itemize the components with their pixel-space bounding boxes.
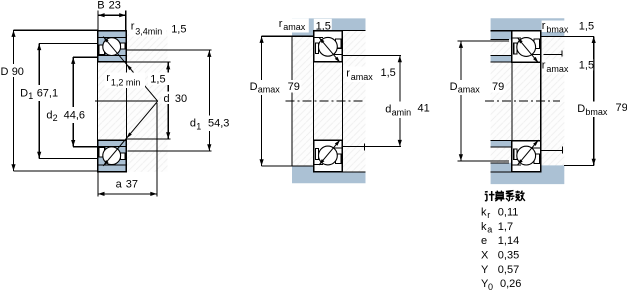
bore line right (fig2)	[341, 62, 343, 141]
bearing section top (fig2): cage right	[336, 39, 341, 48]
svg-text:bmax: bmax	[585, 107, 608, 117]
bearing section bottom (fig3): outer ring raceway line	[513, 164, 522, 166]
label da min (fig2)	[384, 102, 413, 119]
arrow B left	[98, 13, 105, 17]
dimension line Db max 79	[593, 36, 595, 165]
bore line left (fig2)	[313, 62, 315, 141]
label ra max (fig3)	[542, 60, 571, 74]
housing bore line top (fig2)	[314, 30, 366, 32]
bore line left (fig3)	[511, 62, 513, 140]
svg-text:a: a	[116, 179, 123, 191]
housing shoulder face top (fig2)	[262, 35, 314, 37]
housing lower section (fig2)	[292, 166, 366, 183]
table heading 计算系数 (drawn strokes)	[485, 191, 495, 201]
label 79 Db (fig3)	[614, 102, 627, 114]
bearing section bottom (fig2): inner ring raceway line	[333, 147, 342, 149]
svg-text:0,35: 0,35	[498, 249, 519, 261]
dimension line a 37	[98, 193, 157, 195]
arrow D1 bottom	[37, 152, 41, 159]
svg-text:0,11: 0,11	[498, 206, 519, 218]
svg-text:D: D	[250, 81, 258, 93]
arrow d2 bottom	[71, 140, 75, 147]
arrow B right	[119, 13, 126, 17]
contact/load line bottom	[103, 101, 158, 166]
svg-text:79: 79	[492, 81, 504, 93]
a left extension line	[97, 172, 99, 197]
svg-text:X: X	[481, 249, 489, 261]
arrow d1 bottom	[207, 144, 211, 151]
bearing cross-section top (fig1): outer ring raceway line	[98, 36, 125, 38]
svg-text:a: a	[487, 224, 492, 234]
label d2 44,6	[45, 107, 87, 123]
svg-text:23: 23	[109, 0, 121, 11]
figure 2 hatched zone	[292, 31, 366, 172]
dimension line da min 41	[399, 56, 401, 147]
svg-text:bmax: bmax	[546, 25, 569, 35]
housing bore line top (fig3)	[491, 30, 541, 32]
contact arrow top2 (fig2)	[335, 57, 340, 63]
dimension line Da max 79	[261, 36, 263, 166]
arrow Db top (fig3)	[592, 37, 596, 44]
svg-text:44,6: 44,6	[64, 109, 85, 121]
bore line right	[125, 62, 127, 141]
D bottom extension line	[14, 170, 98, 172]
svg-text:30: 30	[175, 93, 187, 105]
bearing cross-section bottom (fig1): cage right	[121, 153, 125, 159]
contact arrow bottom (fig2)	[319, 159, 324, 165]
bore line left	[97, 62, 99, 141]
label r12min	[105, 73, 146, 89]
contact line bottom (fig2)	[319, 140, 340, 165]
svg-text:r: r	[542, 60, 546, 72]
dimension line B 23	[98, 14, 126, 16]
label ra max top (fig2)	[277, 19, 309, 33]
bearing section top (fig2): ring block	[314, 31, 343, 62]
label 1,5 top (fig2)	[314, 19, 332, 30]
B right extension line	[125, 11, 127, 31]
svg-text:amax: amax	[283, 22, 306, 32]
label 79 Da (fig3)	[490, 81, 506, 93]
svg-text:0,26: 0,26	[500, 278, 521, 290]
svg-text:amax: amax	[258, 85, 281, 95]
shaft shoulder line bottom (fig2)	[342, 146, 400, 148]
svg-text:r: r	[106, 72, 110, 84]
dimension line d2 44,6	[72, 57, 74, 147]
svg-text:67,1: 67,1	[37, 87, 58, 99]
bearing cross-section top (fig1): cage right	[121, 43, 125, 49]
Da extension bottom (fig3)	[458, 160, 509, 162]
arrow D1 top	[37, 44, 41, 51]
dimension line d1 54,3	[208, 50, 210, 151]
bearing cross-section top (fig1): ball	[103, 38, 121, 56]
contact line top (fig3)	[517, 38, 538, 63]
washer lower edge / Db extension top (fig3)	[541, 35, 594, 37]
arrow d1 top	[207, 50, 211, 57]
svg-text:0,57: 0,57	[498, 264, 519, 276]
bearing section top (fig3): ball	[517, 38, 536, 57]
svg-text:r: r	[279, 18, 283, 30]
arrow da top (fig2)	[398, 56, 402, 63]
bearing section bottom (fig3): cage left	[514, 149, 517, 160]
arrow Da top (fig3)	[459, 41, 463, 48]
d2 bottom extension line	[73, 146, 97, 148]
bearing cross-section bottom (fig1): outer ring raceway line	[98, 164, 125, 166]
svg-text:e: e	[481, 235, 487, 247]
contact line arrow bottom	[103, 160, 108, 166]
arrow D top	[11, 30, 15, 37]
svg-text:1,14: 1,14	[498, 235, 519, 247]
bore line right (fig3)	[540, 62, 542, 140]
svg-text:D: D	[577, 103, 585, 115]
shaft step tick (fig2)	[363, 144, 365, 151]
svg-text:Y: Y	[481, 264, 489, 276]
contact line arrow top	[103, 37, 108, 43]
arrow d2 top	[71, 57, 75, 64]
dimension line Da max (fig3)	[460, 41, 462, 161]
svg-text:1,5: 1,5	[381, 67, 396, 79]
bearing cross-section bottom (fig1): cage left	[99, 148, 105, 158]
contact line top (fig2)	[319, 37, 340, 62]
svg-text:41: 41	[418, 103, 430, 115]
svg-text:D: D	[1, 66, 9, 78]
d1 bottom extension line	[128, 150, 212, 152]
housing shoulder face top (fig3)	[491, 39, 509, 41]
d bottom extension line	[126, 138, 170, 140]
arrow Db bottom (fig3)	[592, 159, 596, 166]
svg-text:D: D	[450, 81, 458, 93]
label r34min	[129, 22, 166, 37]
arrow D bottom	[11, 164, 15, 171]
bearing section bottom (fig3): cage right	[534, 154, 539, 163]
svg-text:d: d	[46, 109, 52, 121]
svg-text:r: r	[346, 68, 350, 80]
shaft spacer line2 (fig3)	[491, 146, 512, 148]
bearing cross-section bottom (fig1): ring block	[98, 140, 127, 171]
bearing section bottom (fig2): outer ring raceway line	[314, 164, 323, 166]
svg-text:1,5: 1,5	[316, 20, 331, 32]
shaft spacer bottom line (fig3)	[491, 61, 512, 63]
housing bore line bottom (fig2)	[314, 171, 366, 173]
svg-text:r: r	[131, 21, 135, 33]
d1 top extension line	[126, 49, 211, 51]
B left extension line	[97, 11, 99, 31]
contact arrow bottom (fig3)	[518, 159, 523, 165]
bearing section bottom (fig3): ring block	[512, 141, 541, 172]
shaft spacer line (fig3)	[491, 140, 512, 142]
arrow a left	[98, 192, 105, 196]
svg-text:amax: amax	[458, 85, 481, 95]
r12 leader arrow bottom	[127, 132, 132, 138]
arrow Da top (fig2)	[260, 36, 264, 43]
Da extension top (fig3)	[458, 40, 509, 42]
bearing section top (fig3): cage right	[534, 39, 539, 48]
r12 leader arrow top	[127, 64, 132, 70]
shaft spacer top line (fig3)	[491, 55, 512, 57]
figure 3 hatched zone	[491, 31, 565, 172]
bearing section top (fig3): cage left	[514, 43, 517, 54]
bearing section top (fig3): inner ring raceway line	[531, 54, 540, 56]
d2 top extension line	[73, 56, 97, 58]
bearing cross-section top (fig1): ring block	[98, 31, 127, 62]
svg-text:D: D	[20, 87, 28, 99]
dimension line D1 67,1	[38, 43, 40, 158]
bearing cross-section top (fig1): inner ring raceway line	[98, 55, 125, 57]
bearing section bottom (fig2): ball	[319, 146, 338, 165]
arrow Da bottom (fig3)	[459, 154, 463, 161]
label Da max (fig3)	[448, 80, 482, 95]
dimension line D 90	[13, 30, 15, 171]
svg-text:1,5: 1,5	[579, 20, 594, 32]
svg-text:d: d	[190, 118, 196, 130]
bearing section bottom (fig3): inner ring raceway line	[531, 147, 540, 149]
svg-text:79: 79	[288, 81, 300, 93]
bearing section bottom (fig2): cage right	[336, 154, 341, 163]
label 79 (fig2)	[286, 80, 302, 93]
svg-text:amax: amax	[351, 72, 374, 82]
label 1,5 mid (fig2)	[379, 67, 397, 79]
svg-text:1,2 min: 1,2 min	[111, 77, 141, 87]
label Da max (fig2)	[248, 80, 282, 95]
centerline fig3	[485, 100, 560, 102]
svg-text:k: k	[481, 206, 487, 218]
bearing section top (fig3): ring block	[512, 31, 541, 62]
ra reference line bottom (fig3)	[541, 149, 562, 151]
contact arrow top2 (fig3)	[533, 57, 538, 63]
contact arrow bottom2 (fig3)	[533, 140, 538, 146]
a right extension line	[156, 103, 158, 197]
label 1,5 r12	[148, 73, 170, 86]
svg-text:1,7: 1,7	[498, 221, 513, 233]
contact arrow top (fig2)	[319, 38, 324, 44]
arrow Da bottom (fig2)	[260, 159, 264, 166]
housing upper section (fig2)	[292, 18, 366, 36]
svg-text:79: 79	[616, 102, 627, 114]
label rb max (fig3)	[542, 21, 571, 33]
housing bore line bottom (fig3)	[491, 171, 541, 173]
contact line bottom (fig3)	[517, 140, 538, 165]
figure 1 hatched shaft/housing zone	[98, 31, 168, 172]
ra reference tick bottom (fig3)	[561, 147, 563, 154]
centerline fig2	[285, 100, 363, 102]
bearing section bottom (fig3): ball	[517, 146, 536, 165]
contact arrow top (fig3)	[518, 38, 523, 44]
svg-text:3,4min: 3,4min	[135, 27, 162, 37]
bearing cross-section top (fig1): cage left	[99, 45, 105, 55]
d top extension line	[126, 61, 170, 63]
arrow a right	[150, 192, 157, 196]
bearing section top (fig3): outer ring raceway line	[513, 37, 522, 39]
label ra max mid (fig2)	[345, 67, 377, 83]
shaft spacer top (fig3)	[491, 56, 512, 63]
ra reference tick (fig3)	[561, 50, 563, 56]
label 41 (fig2)	[416, 102, 431, 113]
contact arrow bottom2 (fig2)	[335, 140, 340, 146]
svg-text:d: d	[385, 104, 391, 116]
housing upper section (fig3)	[491, 18, 565, 39]
Db extension bottom (fig3)	[564, 164, 594, 166]
label Db max (fig3)	[576, 102, 613, 118]
bearing section top (fig2): outer ring raceway line	[314, 37, 323, 39]
shaft shoulder line top (fig2)	[342, 55, 400, 57]
label 1,5 rb (fig3)	[577, 20, 593, 32]
centerline fig1	[95, 100, 158, 102]
housing lower section (fig3)	[491, 163, 565, 184]
label d1 54,3	[188, 116, 232, 132]
D1 bottom extension line	[39, 157, 97, 159]
housing shoulder wall line (fig2)	[291, 36, 293, 166]
svg-text:37: 37	[126, 179, 138, 191]
svg-text:0: 0	[488, 282, 493, 291]
bearing section bottom (fig2): cage left	[316, 149, 319, 160]
label D1 67,1	[18, 85, 60, 101]
housing shoulder face bottom (fig2)	[262, 165, 314, 167]
svg-text:2: 2	[53, 113, 58, 123]
svg-text:d: d	[164, 93, 170, 105]
bearing cross-section bottom (fig1): ball	[103, 147, 121, 165]
bearing section top (fig2): inner ring raceway line	[333, 53, 342, 55]
label 1,5 ra (fig3)	[577, 59, 593, 71]
svg-text:B: B	[97, 0, 104, 11]
bearing cross-section bottom (fig1): inner ring raceway line	[98, 146, 125, 148]
arrow da bottom (fig2)	[398, 140, 402, 147]
svg-text:1,5: 1,5	[150, 74, 165, 86]
D1 top extension line	[39, 42, 97, 44]
dimension line d 30	[167, 63, 169, 139]
bearing section top (fig2): cage left	[316, 43, 319, 54]
svg-text:k: k	[481, 221, 487, 233]
svg-text:amax: amax	[546, 64, 569, 74]
label 1,5 r34	[169, 23, 189, 35]
ra reference line (fig3)	[544, 54, 563, 56]
svg-text:r: r	[487, 210, 490, 220]
svg-text:54,3: 54,3	[208, 118, 229, 130]
bearing section bottom (fig2): ring block	[314, 140, 343, 171]
svg-text:1: 1	[196, 121, 201, 131]
D top extension line	[14, 29, 98, 31]
label D 90	[0, 64, 25, 77]
svg-text:1: 1	[28, 91, 33, 101]
svg-text:r: r	[542, 20, 546, 32]
label d 30	[162, 92, 189, 105]
svg-text:1,5: 1,5	[579, 59, 594, 71]
svg-text:1,5: 1,5	[171, 23, 186, 35]
housing shoulder face bottom (fig3)	[491, 162, 509, 164]
svg-text:amin: amin	[392, 107, 412, 117]
bearing section top (fig2): ball	[319, 37, 338, 56]
arrow d bottom	[166, 132, 170, 139]
shaft spacer bottom (fig3)	[491, 141, 512, 148]
arrow d top	[166, 63, 170, 70]
contact/load line top	[103, 37, 158, 102]
svg-text:90: 90	[12, 66, 24, 78]
